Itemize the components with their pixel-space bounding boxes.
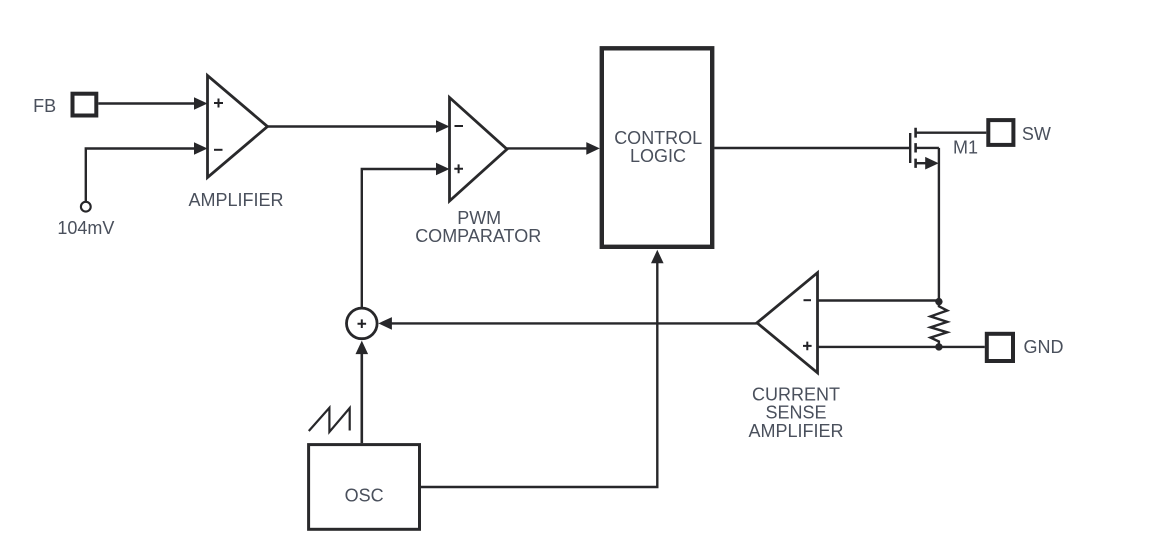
node top of sense resistor (935, 298, 942, 305)
arrow into control logic (586, 142, 600, 155)
wire MOSFET source down to sense resistor (938, 148, 940, 300)
plus sign amplifier (214, 99, 223, 108)
wire amplifier output to PWM comparator - input (267, 125, 438, 127)
svg-text:SW: SW (1022, 124, 1051, 144)
plus sign current sense (803, 342, 812, 351)
wire 104mV to amplifier - input (86, 149, 195, 202)
arrow into amplifier + (194, 97, 208, 110)
transistor M1 body lead (916, 147, 939, 149)
svg-text:GND: GND (1024, 337, 1064, 357)
pad FB (73, 94, 97, 116)
arrow into PWM - (436, 120, 450, 133)
minus sign current sense (804, 299, 812, 301)
svg-text:FB: FB (33, 96, 56, 116)
pad GND (987, 334, 1013, 361)
svg-text:AMPLIFIER: AMPLIFIER (188, 190, 283, 210)
svg-text:SENSE: SENSE (765, 403, 826, 423)
svg-text:M1: M1 (953, 137, 978, 157)
resistor sense (931, 302, 948, 347)
op-amp CURRENT SENSE AMPLIFIER (757, 273, 818, 373)
arrow into summing node bottom (356, 341, 369, 355)
wire PWM output to control logic (506, 147, 588, 149)
plus sign PWM (454, 164, 463, 173)
minus sign amplifier (214, 149, 223, 151)
arrow into PWM + (436, 163, 450, 176)
transistor M1 channel segments (914, 128, 917, 168)
plus sign summing node (358, 319, 367, 328)
arrow into control logic bottom (651, 250, 664, 263)
wire resistor bottom to current sense + input and GND (818, 346, 985, 348)
summing node circle (347, 308, 378, 339)
wire OSC to summing node (360, 354, 363, 444)
svg-text:CONTROL: CONTROL (614, 128, 702, 148)
sawtooth waveform symbol (309, 408, 350, 432)
svg-text:104mV: 104mV (57, 218, 114, 238)
node bottom of sense resistor (935, 343, 942, 350)
wire summing node to PWM comparator + input (362, 169, 437, 308)
minus sign PWM (455, 125, 464, 127)
wire control logic to MOSFET gate (714, 147, 909, 149)
wire resistor top to current sense - input (818, 299, 939, 301)
arrow into amplifier - (194, 142, 208, 155)
transistor M1 gate bar (909, 133, 911, 163)
svg-text:OSC: OSC (345, 486, 384, 506)
svg-text:COMPARATOR: COMPARATOR (415, 226, 541, 246)
svg-text:PWM: PWM (457, 208, 501, 228)
svg-text:LOGIC: LOGIC (630, 146, 686, 166)
op-amp PWM comparator (450, 98, 508, 202)
wire current sense output to summing node (391, 322, 758, 324)
wire FB to amplifier + input (98, 102, 195, 104)
transistor M1 drain lead (916, 131, 986, 133)
terminal 104mV (81, 202, 91, 212)
transistor M1 source lead (916, 162, 927, 164)
transistor M1 body arrow (925, 157, 939, 170)
pad SW (988, 120, 1013, 145)
wire OSC output to control logic bottom (421, 263, 657, 488)
block OSC (309, 445, 420, 530)
svg-text:AMPLIFIER: AMPLIFIER (748, 421, 843, 441)
block CONTROL LOGIC (602, 48, 712, 247)
svg-text:CURRENT: CURRENT (752, 384, 840, 404)
arrow into summing node right (378, 317, 392, 330)
op-amp AMPLIFIER (208, 76, 268, 178)
